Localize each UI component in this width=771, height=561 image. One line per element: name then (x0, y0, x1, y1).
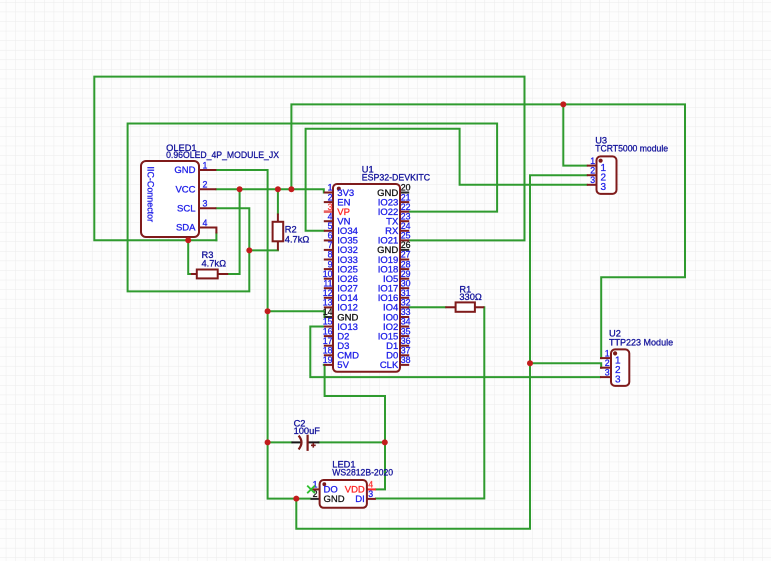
wire VCC drop to U3 pin1 (563, 104, 587, 165)
svg-text:23: 23 (401, 211, 411, 221)
wire GND branch C2 left (268, 441, 292, 443)
capacitor C2 100uF polarized (291, 418, 320, 451)
svg-text:25: 25 (401, 231, 411, 241)
svg-text:4: 4 (368, 479, 373, 489)
svg-text:29: 29 (401, 269, 411, 279)
wire net GND OLED pin1 down the left of U1 (216, 170, 310, 499)
R3 body (197, 270, 218, 279)
node SCL-R2 junction (246, 247, 252, 253)
svg-text:12: 12 (323, 288, 333, 298)
svg-text:3: 3 (590, 175, 595, 185)
svg-text:33: 33 (401, 307, 411, 317)
wire VCC to R3 right leg (228, 189, 239, 274)
svg-text:TCRT5000 module: TCRT5000 module (595, 143, 668, 153)
svg-text:GND: GND (324, 494, 345, 505)
U3 pin numbers (590, 156, 595, 185)
svg-text:0.96OLED_4P_MODULE_JX: 0.96OLED_4P_MODULE_JX (166, 150, 279, 160)
svg-text:32: 32 (401, 298, 411, 308)
wire net VCC main OLED VCC to U1 3V3 (216, 189, 323, 192)
R1 leads (445, 306, 484, 308)
U1 pin14 GND black stub (325, 316, 334, 318)
LED1 no-connect X on pin1 (307, 486, 315, 494)
op U1 ESP32-DEVKITC body (324, 164, 431, 371)
svg-text:34: 34 (401, 317, 411, 327)
U1 left pin stubs 1-19 (324, 193, 333, 365)
R2 body (273, 222, 284, 242)
U1 right pin numbers (401, 183, 411, 365)
R1 body (456, 302, 475, 311)
node VCC riser junction (288, 186, 294, 192)
svg-text:GND: GND (174, 165, 195, 176)
svg-text:IIC-Connector: IIC-Connector (144, 167, 155, 223)
wire net SDA/IO21 top loop (94, 77, 524, 241)
wire GND bottom rail (296, 175, 587, 529)
svg-text:37: 37 (401, 346, 411, 356)
svg-text:DI: DI (355, 494, 365, 505)
svg-text:1: 1 (605, 349, 610, 359)
svg-text:4.7kΩ: 4.7kΩ (285, 235, 310, 245)
svg-text:2: 2 (328, 192, 333, 202)
svg-text:28: 28 (401, 259, 411, 269)
wire GND branch to U2 pin2 (530, 363, 601, 368)
wire net IO34 to U3 pin3 (306, 129, 587, 231)
svg-text:26: 26 (401, 240, 411, 250)
svg-text:3: 3 (615, 374, 621, 385)
svg-text:15: 15 (323, 317, 333, 327)
U3 first pin dot (599, 159, 603, 163)
U2 pin numbers (605, 349, 610, 378)
resistor R3 4.7k pull-up on SDA (191, 250, 228, 278)
wire SCL to R2 bottom (249, 249, 278, 251)
wire net SCL from OLED pin3 (128, 124, 498, 292)
svg-text:100uF: 100uF (294, 426, 321, 436)
U1 body (333, 184, 400, 372)
svg-text:27: 27 (401, 250, 411, 260)
wire net IO4 U1 pin32 to R1 (409, 306, 445, 308)
resistor R2 4.7k pull-up on SCL (273, 214, 310, 251)
svg-text:2: 2 (203, 180, 208, 190)
LED1 pin2 stub GND black (311, 498, 320, 500)
node GND-C2 junction (265, 439, 271, 445)
R3 leads (191, 273, 228, 275)
svg-text:4.7kΩ: 4.7kΩ (202, 259, 227, 269)
U1 left pin numbers (323, 183, 333, 365)
svg-text:17: 17 (323, 336, 333, 346)
svg-text:SDA: SDA (176, 223, 196, 234)
svg-text:3: 3 (368, 489, 373, 499)
svg-text:36: 36 (401, 336, 411, 346)
svg-text:3: 3 (605, 368, 610, 378)
U1 pin26 GND black stub (400, 249, 409, 251)
svg-text:ESP32-DEVKITC: ESP32-DEVKITC (362, 173, 431, 183)
LED1 pin1 stub DO (311, 488, 320, 490)
U2 TTP223 Module (600, 328, 673, 386)
C2 plus sign (311, 443, 316, 448)
svg-text:SCL: SCL (177, 204, 195, 215)
svg-text:38: 38 (401, 355, 411, 365)
wire GND branch to U1 pin14 (268, 311, 325, 317)
wire SDA drop from OLED pin4 (215, 233, 217, 240)
U1 right pin names (377, 188, 399, 371)
svg-text:19: 19 (323, 355, 333, 365)
U2 first pin dot (613, 351, 617, 355)
LED1 pin4 stub VDD red (367, 488, 376, 490)
resistor R1 330 ohm series (445, 284, 484, 311)
svg-text:WS2812B-2020: WS2812B-2020 (332, 467, 393, 477)
svg-text:3: 3 (328, 202, 333, 212)
wire R3 drop from SDA node (188, 240, 191, 274)
svg-text:20: 20 (401, 183, 411, 193)
U3 pin stubs (587, 166, 597, 185)
U3 TCRT5000 module (587, 136, 668, 194)
svg-text:30: 30 (401, 278, 411, 288)
wire VCC to R2 top (277, 189, 279, 213)
svg-text:18: 18 (323, 346, 333, 356)
svg-text:3: 3 (601, 182, 607, 193)
node VCC-U3pin1 junction (560, 101, 566, 107)
svg-text:VCC: VCC (175, 185, 195, 196)
node VCC-R3 junction (237, 186, 243, 192)
svg-text:4: 4 (328, 211, 333, 221)
LED1 body (320, 480, 367, 508)
svg-text:2: 2 (590, 166, 595, 176)
svg-text:24: 24 (401, 221, 411, 231)
LED1 first pin dot (322, 482, 326, 486)
svg-text:16: 16 (323, 326, 333, 336)
svg-text:330Ω: 330Ω (459, 292, 482, 302)
U1 pin3 VP highlighted stub (324, 210, 333, 213)
node 5V-C2 junction (382, 439, 388, 445)
C2 black lead left (291, 441, 300, 443)
svg-text:10: 10 (323, 269, 333, 279)
node VCC-R2 junction (275, 186, 281, 192)
C2 straight positive plate (307, 435, 309, 451)
svg-text:22: 22 (401, 202, 411, 212)
LED1 pin3 stub DI (367, 498, 376, 500)
U3 body (597, 156, 617, 194)
svg-text:13: 13 (323, 298, 333, 308)
wire net IO13 to U2 pin3 (310, 327, 600, 378)
svg-text:1: 1 (590, 156, 595, 166)
svg-text:7: 7 (328, 240, 333, 250)
svg-text:6: 6 (328, 231, 333, 241)
svg-text:4: 4 (203, 218, 208, 228)
svg-text:CLK: CLK (380, 360, 399, 371)
svg-text:TTP223 Module: TTP223 Module (609, 337, 673, 347)
U1 left pin names (337, 188, 359, 371)
node SDA-R3 junction (185, 237, 191, 243)
wire C2 right lead to 5V node (319, 441, 386, 443)
node GND-U2pin2 junction (527, 360, 533, 366)
svg-text:14: 14 (323, 307, 333, 317)
svg-text:5: 5 (328, 221, 333, 231)
U1 first pin dot (337, 187, 341, 191)
OLED1 0.96OLED_4P_MODULE_JX (141, 143, 279, 237)
LED1 WS2812B-2020 (307, 459, 393, 508)
svg-text:9: 9 (328, 259, 333, 269)
svg-text:1: 1 (203, 160, 208, 170)
node GND-U1pin14 junction (265, 308, 271, 314)
R2 leads (277, 214, 279, 251)
OLED1 body (141, 161, 199, 237)
svg-text:21: 21 (401, 192, 411, 202)
U2 body (611, 349, 629, 386)
svg-text:R2: R2 (285, 225, 297, 235)
svg-text:5V: 5V (337, 360, 349, 371)
svg-text:11: 11 (323, 278, 332, 288)
OLED1 pin stubs (199, 170, 216, 234)
U1 pin20 GND black stub (400, 192, 409, 194)
svg-text:1: 1 (328, 183, 333, 193)
svg-text:8: 8 (328, 250, 333, 260)
C2 black lead right (308, 441, 320, 443)
node GND-LED junction (293, 496, 299, 502)
svg-text:31: 31 (401, 288, 411, 298)
svg-text:3: 3 (203, 199, 208, 209)
wire net 5V U1 pin19 to C2 right and LED VDD (324, 365, 385, 490)
C2 curved negative plate (299, 436, 302, 450)
U1 right pin stubs 20-38 (400, 202, 409, 365)
wire VCC riser and top run to right (291, 104, 685, 358)
svg-text:35: 35 (401, 326, 411, 336)
U2 pin stubs (600, 358, 611, 377)
wire R1 right to LED DI (376, 307, 484, 498)
